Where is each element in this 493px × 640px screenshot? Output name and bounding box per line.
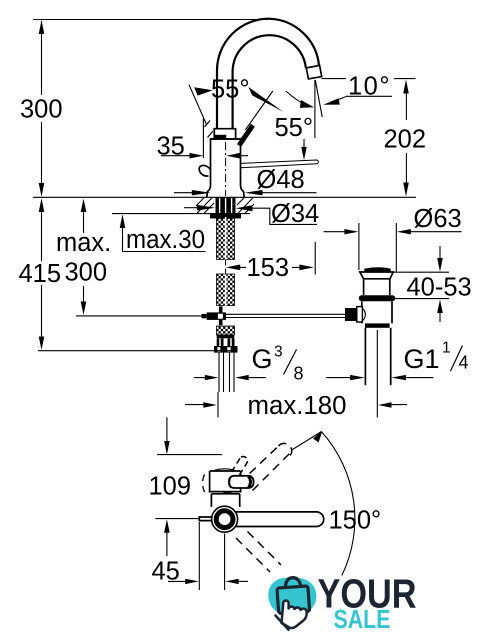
svg-text:415: 415: [19, 260, 62, 288]
threaded shank lower: [217, 274, 235, 306]
deck hatching left: [196, 198, 214, 213]
dimension 202 arrow down: [403, 183, 409, 197]
swivel 150 arc: [322, 432, 355, 575]
plan lever handle: [229, 476, 254, 488]
dimension 153 right arrow: [299, 265, 313, 271]
dimension 48 right arrow and line: [244, 190, 262, 195]
drain tailpipe inner line: [376, 330, 378, 417]
svg-text:55°: 55°: [211, 76, 250, 104]
dashed spout down position: [236, 532, 281, 573]
lever closed position: [239, 125, 253, 145]
dimension G3/8 left arrow: [194, 377, 206, 379]
angle 10 underline: [346, 95, 393, 97]
dimension 63 right arrow: [397, 229, 411, 234]
spout swivel circle outer: [212, 506, 238, 532]
svg-text:153: 153: [247, 254, 290, 282]
dimension 300 line segments: [41, 21, 43, 183]
plan lower housing: [211, 494, 239, 507]
label max.30 arrow up: [120, 214, 126, 228]
dimension max.300 arrow up: [81, 199, 87, 213]
label diameter 34 leader: [252, 208, 317, 224]
dimension 300 arrow down: [39, 183, 45, 197]
dimension 109 bottom arrow: [164, 519, 170, 533]
logo hand wrist stroke: [276, 616, 289, 630]
logo group: [268, 571, 416, 635]
svg-text:8: 8: [294, 364, 304, 384]
dimension 35 right arrow and line: [226, 153, 240, 159]
angle 10 arrow: [323, 98, 340, 105]
lever hatch tick 1: [205, 121, 211, 128]
dimension 40-53 top arrow: [439, 246, 441, 259]
countertop deck top line: [33, 196, 416, 198]
dimension 40-53 bottom extension line: [380, 298, 449, 300]
dimension G1 1/4 right arrow: [391, 375, 406, 380]
faucet body: [207, 139, 244, 197]
dimension 300 arrow up: [39, 20, 45, 34]
lever extreme extension line: [189, 85, 207, 125]
plan dashed arc left: [203, 475, 205, 493]
drain rod block dark: [345, 308, 357, 321]
threaded shank upper: [217, 218, 235, 259]
faucet handle hook: [199, 165, 211, 176]
drain body ball arc: [362, 308, 365, 321]
angle 55 arc arrow: [300, 100, 314, 108]
plan body rect: [210, 471, 241, 492]
plan view top reference line: [157, 454, 222, 456]
svg-text:35: 35: [157, 133, 185, 161]
vertical stream reference line: [314, 80, 316, 138]
drain body: [362, 301, 392, 323]
angle 10 leader: [338, 97, 346, 100]
plan dashed lever up: [232, 456, 249, 475]
plan body bottom line: [209, 491, 242, 493]
dimension 415 arrow up: [39, 198, 45, 212]
label diameter 34 left arrow: [184, 207, 199, 209]
dimension max.180 left tick: [217, 392, 219, 417]
dimension G3/8 right arrow: [235, 375, 249, 380]
dimension diameter 63 extension lines: [358, 223, 360, 270]
dimension 45 left tick: [198, 522, 200, 590]
svg-text:3: 3: [274, 344, 283, 361]
logo teal blob: [268, 577, 316, 614]
mounting shank dark: [216, 198, 236, 214]
dimension 45 right tick: [224, 534, 226, 591]
faucet collar: [214, 129, 235, 139]
svg-text:max.30: max.30: [126, 226, 205, 254]
svg-text:109: 109: [149, 473, 192, 501]
svg-text:55°: 55°: [275, 114, 314, 142]
svg-text:max.: max.: [56, 229, 111, 257]
dimension max.300 line segments: [83, 212, 85, 302]
dimension 48 left line and arrow: [174, 192, 192, 194]
svg-text:G: G: [252, 344, 273, 374]
plan left tab: [199, 517, 212, 521]
drain flange: [360, 272, 393, 279]
dimension max.180 left arrow: [185, 404, 204, 406]
dimension 45 right arrow: [225, 579, 239, 584]
logo bag body: [277, 586, 310, 614]
dimension 415 line segments: [41, 212, 43, 337]
angle 55 left arrow: [194, 87, 213, 95]
dimension 109 top arrow: [166, 417, 168, 442]
dimension 40-53 top extension line: [393, 271, 449, 273]
open lever outline: [241, 160, 319, 168]
lever extension line: [245, 91, 272, 130]
drain tailpipe: [365, 328, 390, 385]
plan lever hub: [229, 477, 231, 489]
plan body tab: [223, 492, 231, 495]
dimension 202 arrow up: [403, 80, 409, 94]
dashed spout up position: [250, 443, 292, 490]
angle 55 right arc: [286, 91, 309, 106]
rod cross fitting: [219, 306, 223, 313]
dimension max.180 right arrow: [378, 402, 392, 407]
dimension 202 line segments: [405, 92, 407, 183]
dimension max.300 arrow down: [81, 302, 87, 316]
dimension 153 left arrow: [226, 265, 240, 271]
spout aerator band: [306, 65, 322, 79]
dimension 63 left arrow: [324, 231, 346, 233]
drain neck: [364, 279, 390, 295]
shank washer: [210, 214, 241, 219]
dimension 202 top extension line: [322, 78, 347, 80]
svg-text:300: 300: [20, 96, 63, 124]
swivel arc arrow: [313, 431, 323, 443]
dimension 45 left arrow: [168, 580, 186, 582]
svg-text:4: 4: [459, 353, 469, 373]
plan body cap top: [210, 470, 241, 472]
svg-text:G1: G1: [404, 344, 440, 374]
svg-text:Ø63: Ø63: [414, 205, 462, 233]
svg-text:Ø34: Ø34: [271, 200, 319, 228]
faucet collar dark bar: [215, 135, 227, 139]
hose connector checker: [217, 326, 235, 335]
logo hand pointer: [282, 601, 307, 628]
faucet centre line: [225, 142, 227, 196]
top reference line (spout height): [33, 19, 268, 21]
svg-text:1: 1: [442, 340, 451, 357]
label max.30 underline leader: [123, 219, 206, 252]
dimension 35 left line and arrow: [161, 155, 191, 157]
svg-text:40-53: 40-53: [407, 274, 472, 302]
spout outer arc and tube: [217, 19, 319, 129]
drain rod block white: [357, 307, 363, 322]
pop-up rod: [226, 313, 345, 315]
drain bottom band: [365, 323, 390, 327]
dimension 415 arrow down: [39, 337, 45, 351]
drain cap: [364, 267, 390, 272]
svg-text:SALE: SALE: [334, 606, 391, 634]
angle 55 right arrow down: [303, 139, 305, 150]
hose connector band: [217, 335, 235, 339]
415 bottom reference line: [38, 350, 233, 352]
label diameter 34 arrow: [236, 205, 253, 211]
svg-text:Ø48: Ø48: [257, 166, 305, 194]
countertop deck bottom line: [112, 213, 250, 215]
hose connector columns: [217, 338, 224, 346]
plan view bottom reference line: [156, 518, 201, 520]
svg-text:max.180: max.180: [248, 392, 347, 420]
svg-text:202: 202: [384, 126, 427, 154]
dimension G1 1/4 left arrow: [326, 377, 351, 379]
lever vertical extension line: [202, 118, 204, 158]
hose nuts: [214, 346, 238, 353]
hoses: [219, 353, 234, 392]
swivel 150 arc extension line: [293, 432, 322, 450]
pop-up rod left line: [76, 315, 207, 317]
deck hatching right: [237, 198, 254, 213]
plan lever end line: [249, 476, 251, 488]
spout swivel ring: [216, 511, 233, 528]
drain o-ring: [359, 295, 395, 301]
dimension 40-53 bottom arrow: [437, 300, 443, 314]
lever hatch tick 2: [208, 131, 214, 138]
svg-text:300: 300: [65, 259, 108, 287]
dimension 153 tick: [314, 242, 316, 275]
faucet body top line: [211, 138, 241, 140]
svg-text:150°: 150°: [329, 507, 382, 535]
lever angle arrow (long): [248, 87, 283, 112]
stream 10 deg line: [315, 80, 322, 117]
shank centre gap line: [225, 217, 227, 306]
drain pop-up assembly: [345, 267, 395, 417]
spout inner arc and tube: [233, 35, 306, 129]
plan spout tube: [235, 512, 323, 527]
logo bag handle: [285, 578, 301, 590]
